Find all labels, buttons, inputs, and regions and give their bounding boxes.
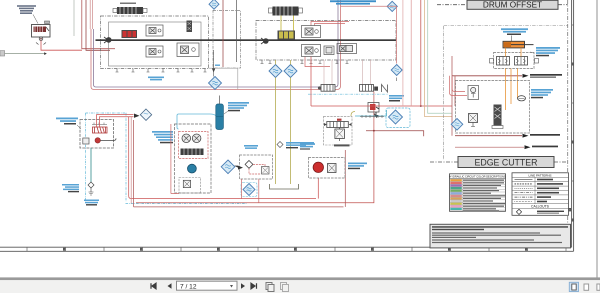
line pattern sample short dash	[515, 187, 533, 189]
pressure reducer below	[335, 129, 345, 139]
drain symbols under box A	[116, 69, 207, 73]
callout diamond symbol	[516, 209, 521, 214]
check valve diamond on olive line	[277, 142, 283, 148]
red wire mid horizontal	[136, 150, 374, 203]
tank bracket	[270, 184, 299, 189]
valve C2	[146, 46, 163, 57]
right toolbar icon selected	[569, 282, 578, 291]
cyan label right of solenoid	[389, 95, 404, 97]
valve V1 spool hatching	[34, 27, 47, 33]
blue diamond with cyan dash box	[386, 108, 410, 128]
wire pink vertical x411	[410, 0, 412, 106]
line pattern sample dash-dot-dot	[515, 196, 533, 198]
cyan dash line under spools	[308, 93, 388, 95]
filter diamond D6 under box B	[284, 65, 297, 78]
filter diamond D4 bottom of box C	[209, 50, 222, 90]
teal drain line from elevator	[90, 148, 92, 182]
red wire vertical pair from elevator going down	[129, 117, 316, 199]
red dashes inside box H	[249, 164, 265, 174]
gray step outline	[209, 68, 238, 89]
cyan feed line to diamond	[355, 110, 387, 116]
elevator valve box D	[80, 120, 114, 149]
line pattern sample dash-dot	[515, 192, 533, 194]
blue diamond F2 below box H	[243, 184, 255, 196]
cyan dash box around diamond F2	[241, 183, 257, 197]
EC blue diamond left	[451, 119, 463, 131]
right toolbar icon 3 partial	[597, 284, 600, 290]
cyan label right of box G	[348, 163, 367, 165]
legend row 8 tan	[450, 197, 462, 199]
connector stub left edge	[0, 51, 5, 56]
enclosure box C outer red rounded	[91, 0, 341, 90]
window right edge line	[596, 0, 597, 278]
EC manifold dash box	[456, 81, 530, 134]
check diamond mid	[140, 109, 151, 120]
legend row 11 pink	[450, 205, 462, 207]
elevator aux valve	[83, 138, 89, 144]
line patterns table frame	[512, 173, 569, 216]
svg-text:LINE PATTERNS: LINE PATTERNS	[528, 173, 551, 177]
arrow into check diamond	[134, 114, 140, 118]
legend row 2 salmon	[450, 182, 462, 184]
wire maroon pair top-left verticals	[82, 0, 115, 49]
red vertical x374 upper	[373, 92, 375, 151]
svg-text:HYDRAULIC CIRCUIT COLOR DESCRI: HYDRAULIC CIRCUIT COLOR DESCRIPTIONS	[449, 175, 506, 179]
wire gray vertical	[73, 0, 75, 36]
red corner wires left of section	[450, 76, 468, 96]
stem to cylinder	[511, 36, 513, 42]
lower arrow with label	[525, 145, 531, 149]
filter diamond D5 under box B	[269, 65, 282, 78]
zone digits bottom band	[64, 248, 527, 250]
filter diamond D1	[209, 0, 219, 9]
check diamond in box H	[245, 161, 253, 169]
orange lines cylinder to valves	[506, 48, 522, 57]
EDGE CUTTER section dash line	[430, 161, 568, 163]
cyan header text top	[330, 0, 376, 4]
yellow wires pump to valve	[281, 16, 294, 31]
svg-text:CALLOUTS: CALLOUTS	[531, 205, 550, 209]
box H dashed	[240, 155, 273, 179]
spool valve row JBII	[360, 85, 374, 92]
wire pink vertical x403	[402, 0, 404, 106]
maroon verticals left	[452, 56, 455, 136]
arrow into box H	[234, 166, 243, 170]
tiny cyan label near D4	[215, 65, 220, 66]
legend row 9 gray	[450, 200, 462, 202]
valve assembly top of box A	[117, 7, 143, 14]
spool valve row IIBL	[321, 85, 335, 92]
label text block top-left	[17, 5, 36, 14]
red horizontal y106	[311, 57, 452, 107]
EC gauge ellipse	[518, 96, 526, 101]
check valve on teal line	[88, 182, 94, 188]
line pattern sample solid	[515, 179, 533, 181]
fan motor circle 2	[192, 134, 201, 143]
legend row 12 teal	[450, 208, 462, 210]
teal motor circle	[188, 164, 197, 173]
piston pump block red cells	[122, 30, 138, 38]
valve V1 pilot circle	[39, 37, 43, 41]
wire red from V1 down	[41, 41, 82, 51]
red wire left of motor box	[171, 124, 179, 194]
DRUM OFFSET section dash line	[437, 4, 568, 6]
viewer bottom gray divider band	[0, 277, 600, 280]
relief valve in box H	[262, 167, 270, 175]
pump group box A dash-dot border	[101, 16, 209, 69]
narrow dash-dot box between A and B	[213, 10, 241, 68]
section border dash-dot right	[567, 0, 569, 247]
cyan label left	[56, 118, 78, 120]
svg-text:DRUM OFFSET: DRUM OFFSET	[483, 1, 542, 10]
cyan label right of accumulator	[228, 102, 249, 104]
legend row 7 rose	[450, 195, 462, 197]
red inner dash box	[179, 132, 209, 159]
olive corner left	[351, 112, 355, 117]
red solenoid cap	[337, 119, 342, 121]
main drive shaft heavy line	[96, 39, 397, 41]
valve V1 bottom marks	[36, 43, 46, 45]
line pattern labels	[537, 179, 553, 181]
DRUM OFFSET title box	[467, 0, 558, 9]
frame ruler ticks bottom	[27, 247, 566, 251]
cyan label left of drain	[62, 184, 79, 186]
legend row 1 orange	[450, 179, 462, 181]
blue diamond E left of box H	[221, 160, 235, 174]
accumulator top line	[219, 96, 221, 105]
EDGE CUTTER title box	[458, 157, 554, 168]
cyan label left of motor box	[152, 131, 173, 133]
drum offset cylinder	[503, 41, 525, 48]
notes text lines	[432, 226, 568, 228]
gear pump block yellow	[278, 31, 296, 40]
enclosure box C inner purple rounded	[94, 0, 339, 87]
red verticals below box H	[242, 179, 259, 203]
cooler fan outer dash box	[175, 124, 212, 193]
sheet frame right double line	[572, 0, 574, 251]
wire red vertical x420.8	[420, 0, 422, 106]
svg-text:EDGE CUTTER: EDGE CUTTER	[474, 157, 537, 167]
manifold dark block	[181, 149, 204, 156]
drain symbols under box B	[261, 60, 349, 64]
drum solenoid valve 2	[515, 57, 528, 66]
wire maroon vertical x223	[222, 0, 224, 67]
frame ruler ticks right	[572, 25, 574, 220]
line pattern sample dashed	[515, 183, 533, 185]
label bar under assembly	[334, 144, 350, 146]
line pattern sample dots	[515, 201, 533, 203]
section dash-dot top border	[444, 25, 568, 27]
tandem pump assembly top	[273, 7, 299, 16]
leader line from label to valve	[33, 15, 38, 24]
label above valve assembly	[120, 3, 136, 5]
elevator motor circle red	[95, 138, 100, 143]
legend row 10 olive	[450, 203, 462, 205]
elevator top marks	[92, 123, 107, 125]
color legend table frame	[450, 174, 506, 212]
valve B3 small	[324, 46, 334, 55]
aux valve box below	[179, 178, 201, 194]
legend row 5 green	[450, 190, 462, 192]
prime mover circle 2	[263, 38, 269, 44]
maroon line mid with arrow	[455, 135, 522, 137]
pump box G dashed	[309, 158, 346, 179]
copy-page icon 2	[281, 283, 289, 292]
valve C1	[146, 25, 163, 36]
last-page button	[251, 283, 257, 289]
priority spool valve	[327, 122, 349, 128]
cyan label cylinder	[501, 28, 528, 30]
red vertical x345	[344, 150, 346, 207]
first-page button	[151, 283, 156, 289]
priority valve dash box	[324, 116, 353, 145]
EC cartridge valve dark	[494, 105, 502, 126]
cyan label right of check	[286, 142, 314, 144]
junction dot	[44, 52, 47, 55]
red wire lower horizontal to pump2	[134, 120, 344, 207]
legend row 6 periwinkle	[450, 192, 462, 194]
EC small relief valve	[469, 114, 478, 123]
valve V1 body	[32, 25, 51, 38]
drum valve manifold dash box	[494, 53, 535, 69]
gray supply line left	[0, 53, 45, 55]
valve B4	[337, 44, 357, 54]
wire red verticals to box C	[89, 0, 91, 29]
wire pale green vertical x427.7	[428, 0, 452, 113]
olive wires to tank bracket	[276, 60, 291, 184]
cyan label left of assembly	[300, 143, 315, 145]
filter diamond D2	[387, 1, 397, 11]
pump group box B dash-dot border	[256, 21, 396, 61]
elevator spool valve red hatched	[93, 127, 108, 133]
orange drop wires	[506, 69, 518, 111]
wire red below valve B2	[305, 57, 330, 67]
cyan label under box A	[148, 77, 164, 79]
fan motor circle 1	[182, 134, 191, 143]
valve B2	[302, 45, 321, 57]
page input box	[177, 281, 238, 290]
cyan label right of cylinder	[536, 47, 560, 49]
stubs from box B to spools	[324, 60, 371, 85]
prime mover circle 1	[106, 37, 112, 43]
right toolbar icon 2	[584, 284, 589, 290]
legend row 4 teal-green	[450, 187, 462, 189]
cyan label under drain	[84, 200, 99, 202]
manifold tick row	[360, 116, 384, 118]
junction dots on red lines	[420, 105, 422, 107]
valve side tabs	[490, 59, 494, 64]
EC check valve assembly	[468, 86, 479, 100]
valve B1	[302, 26, 321, 38]
inner manifold box A solid	[109, 22, 202, 66]
zone letters right band	[569, 63, 573, 221]
cyan label above box H	[244, 145, 258, 147]
accumulator cylinder	[216, 104, 224, 130]
elevator outlet line	[101, 138, 117, 140]
section dash-dot left border	[443, 26, 445, 160]
oil cooler pump red circle	[313, 162, 323, 172]
valve C3	[177, 43, 199, 57]
junction arrow above D4	[212, 69, 215, 73]
copy-page icon 1	[266, 283, 274, 292]
EC cyan label right	[531, 89, 553, 91]
sheet frame bottom double line	[0, 247, 574, 251]
blue pilot line box	[177, 114, 219, 129]
next-page button	[241, 283, 245, 289]
wire tan vertical x424.5	[425, 0, 453, 117]
prev-page button	[168, 283, 172, 289]
drum solenoid valve 1	[497, 57, 510, 66]
red horizontal y130.7 to right	[366, 131, 424, 137]
cyan enclosure dash box	[86, 113, 127, 202]
cartridge valve box A	[187, 21, 193, 33]
wire dark vertical x236.5	[236, 0, 238, 62]
solenoid valve with red core	[368, 103, 379, 113]
toolbar background	[0, 280, 600, 293]
legend row 3 purple	[450, 184, 462, 186]
notes text box	[430, 224, 571, 248]
svg-text:7 / 12: 7 / 12	[180, 283, 197, 290]
relief valve in box G	[328, 164, 337, 173]
maroon line lower with arrow	[452, 75, 522, 77]
filter diamond D3	[341, 6, 403, 81]
red vertical x318 to oil cooler pump	[317, 178, 319, 199]
wire red staple above valves	[311, 22, 349, 26]
legend row 13 last	[463, 210, 499, 211]
red wires up from elevator valve	[97, 115, 134, 128]
